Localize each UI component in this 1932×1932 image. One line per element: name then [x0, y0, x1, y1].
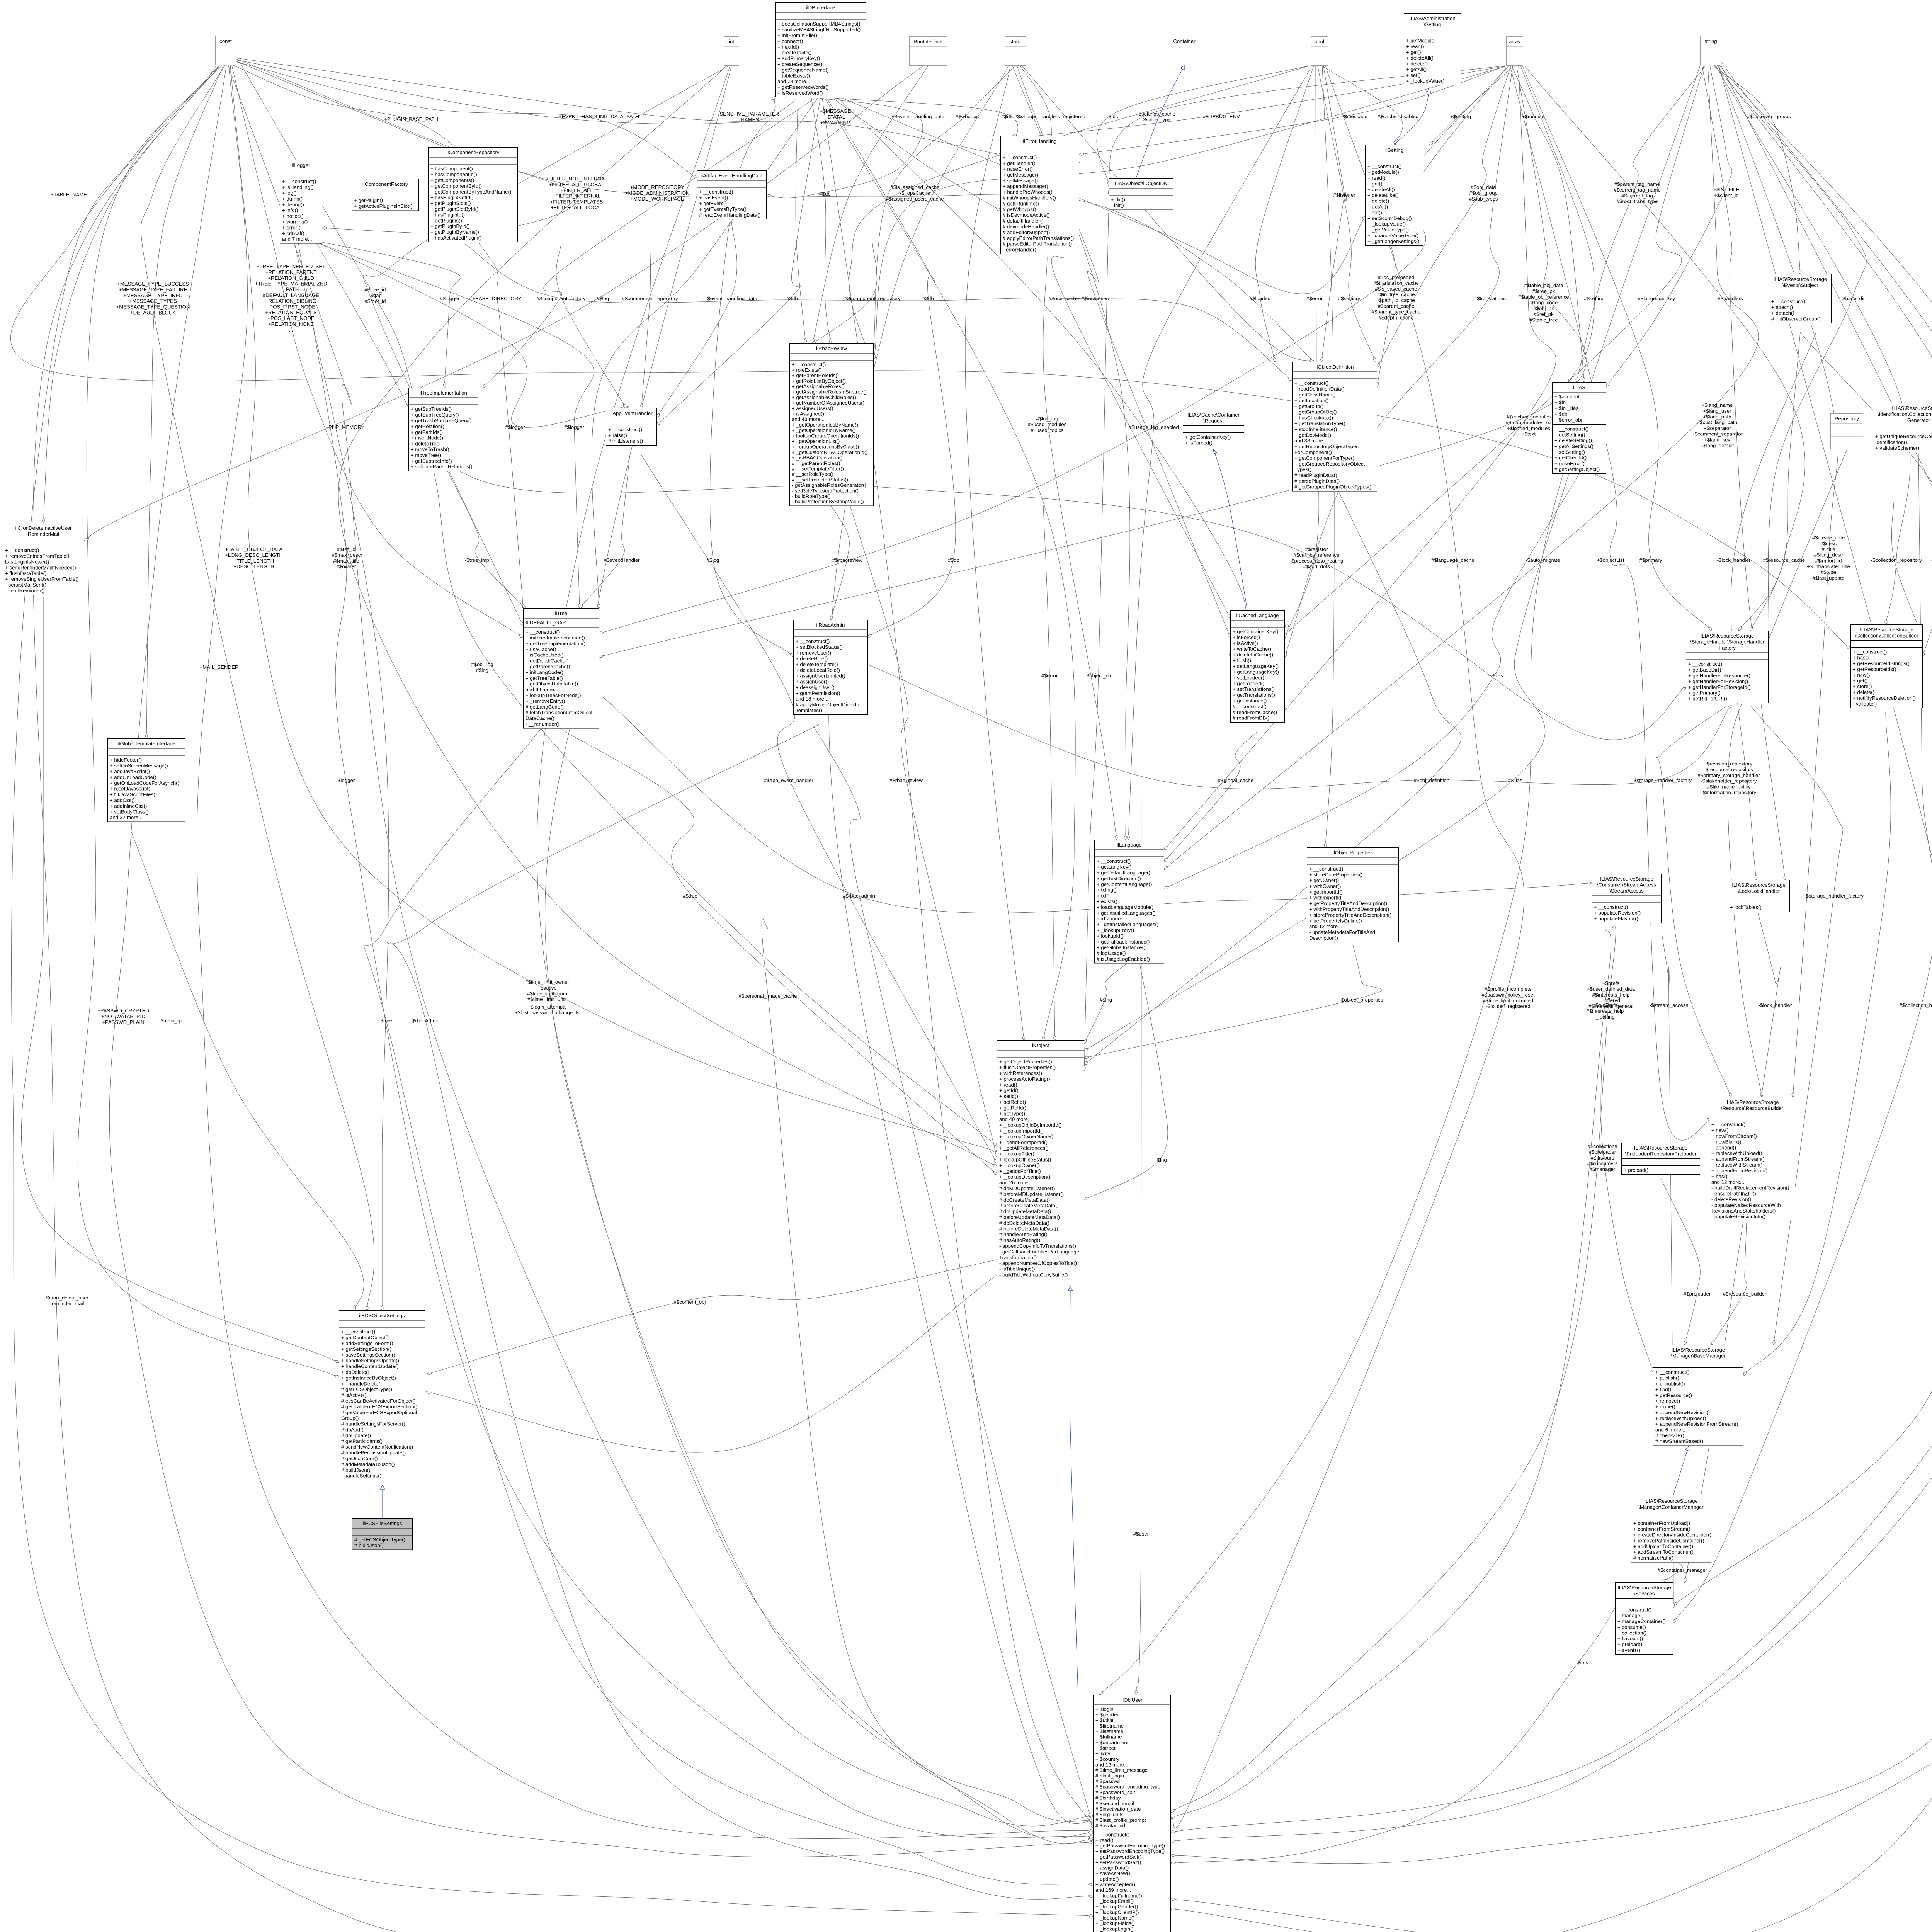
svg-text:+ _lookupTitle(): + _lookupTitle() [999, 1151, 1034, 1157]
svg-text:+ isAssigned(): + isAssigned() [792, 411, 824, 417]
svg-text:+ getHandlerForStorageId(): + getHandlerForStorageId() [1688, 684, 1751, 690]
svg-text:+ info(): + info() [282, 207, 298, 213]
svg-text:+ getLocation(): + getLocation() [1294, 398, 1328, 403]
svg-text:# doMDUpdateListener(): # doMDUpdateListener() [999, 1185, 1055, 1191]
svg-text:+ getComponentById(): + getComponentById() [430, 183, 482, 189]
svg-text:+ getReservedWords(): + getReservedWords() [777, 84, 829, 90]
svg-text:#$cache_disabled: #$cache_disabled [1378, 114, 1418, 119]
svg-text:and 12 more...: and 12 more... [1095, 1762, 1128, 1767]
svg-text:+ getLangKey(): + getLangKey() [1097, 864, 1132, 870]
svg-text:+ _lookupValue(): + _lookupValue() [1367, 221, 1406, 227]
svg-text:# $password_encoding_type: # $password_encoding_type [1095, 1784, 1160, 1790]
svg-text:-SENSTIVE_PARAMETER: -SENSTIVE_PARAMETER [718, 111, 779, 117]
svg-text:+ hideFooter(): + hideFooter() [110, 757, 142, 763]
svg-text:+ getPropertyIsOnline(): + getPropertyIsOnline() [1309, 918, 1362, 923]
svg-text:+ attach(): + attach() [1771, 304, 1793, 310]
svg-text:+ __construct(): + __construct() [699, 189, 733, 195]
svg-text:#$handlers: #$handlers [1718, 296, 1743, 301]
svg-text:ILIAS\ResourceStorage: ILIAS\ResourceStorage [1732, 882, 1786, 888]
svg-text:+ getPasswordSalt(): + getPasswordSalt() [1095, 1854, 1141, 1860]
svg-text:# ecsCanBeActivatedForObject(): # ecsCanBeActivatedForObject() [341, 1398, 416, 1404]
svg-text:+ loadLanguageModule(): + loadLanguageModule() [1097, 904, 1153, 910]
svg-text:# fetchTranslationFromObject: # fetchTranslationFromObject [526, 710, 593, 716]
svg-text:+MESSAGE_TYPE_QUESTION: +MESSAGE_TYPE_QUESTION [116, 304, 190, 310]
svg-text:# readEventHandlingData(): # readEventHandlingData() [699, 212, 761, 218]
svg-text:+ moveTree(): + moveTree() [411, 452, 441, 458]
svg-text:#$db: #$db [786, 296, 798, 301]
svg-text:+ getAll(): + getAll() [1367, 204, 1388, 210]
svg-text:+RELATION_PARENT: +RELATION_PARENT [265, 269, 317, 275]
svg-text:ILIAS\ResourceStorage: ILIAS\ResourceStorage [1860, 627, 1913, 633]
svg-text:#$parent_tag_name: #$parent_tag_name [1614, 181, 1660, 187]
svg-text:#$owner: #$owner [337, 564, 356, 570]
svg-text:+ setLoaded(): + setLoaded() [1233, 675, 1264, 680]
svg-text:+ preload(): + preload() [1624, 1167, 1648, 1173]
svg-text:#$tree_id: #$tree_id [365, 287, 386, 293]
svg-text:+ _lookupFullname(): + _lookupFullname() [1095, 1893, 1142, 1898]
svg-text:-$storage_handler_factory: -$storage_handler_factory [1804, 893, 1864, 899]
svg-text:+ getLanguageKey(): + getLanguageKey() [1233, 669, 1279, 675]
svg-text:+ replaceWithUpload(): + replaceWithUpload() [1711, 1150, 1762, 1156]
svg-text:+ new(): + new() [1853, 672, 1870, 678]
svg-text:+ appendFromRevision(): + appendFromRevision() [1711, 1168, 1768, 1173]
svg-text:+ new(): + new() [1711, 1128, 1728, 1133]
svg-text:#$preloader: #$preloader [1589, 1149, 1616, 1155]
svg-text:# handleAutoRating(): # handleAutoRating() [999, 1231, 1048, 1237]
svg-text:ILIAS\Object\ilObjectDIC: ILIAS\Object\ilObjectDIC [1113, 180, 1169, 186]
svg-text:#$max_title: #$max_title [333, 558, 359, 564]
svg-text:+ initFromIniFile(): + initFromIniFile() [777, 32, 817, 38]
svg-text:+ $lastname: + $lastname [1095, 1728, 1123, 1734]
svg-text:+ _groupOperationsByClass(): + _groupOperationsByClass() [792, 444, 859, 450]
svg-text:# $passwd: # $passwd [1095, 1778, 1120, 1784]
svg-text:+ _lookupEntry(): + _lookupEntry() [1097, 927, 1134, 933]
svg-text:# doUpdate(): # doUpdate() [341, 1432, 371, 1438]
svg-text:+ flushObjectProperties(): + flushObjectProperties() [999, 1065, 1056, 1070]
svg-text:#$rbacreview: #$rbacreview [832, 557, 863, 563]
svg-text:# beforeUpdateMetaData(): # beforeUpdateMetaData() [999, 1214, 1060, 1220]
svg-text:+ _lookupLogin(): + _lookupLogin() [1095, 1926, 1134, 1932]
svg-text:+ lookupTreesForNode(): + lookupTreesForNode() [526, 692, 581, 698]
svg-text:+ _lookupFields(): + _lookupFields() [1095, 1920, 1135, 1926]
svg-text:+ setId(): + setId() [999, 1094, 1018, 1099]
svg-text:-$lng: -$lng [1155, 1157, 1167, 1163]
svg-text:#$table_obj_reference: #$table_obj_reference [1518, 294, 1569, 300]
svg-text:+ getPlugin(): + getPlugin() [354, 197, 383, 203]
svg-text:+ _getIdsForTitle(): + _getIdsForTitle() [999, 1168, 1041, 1174]
svg-text:- getCallbackForTitlesPerLangu: - getCallbackForTitlesPerLanguage [999, 1249, 1079, 1255]
svg-text:+ setRefId(): + setRefId() [999, 1099, 1026, 1105]
svg-text:ilObject: ilObject [1032, 1043, 1049, 1048]
svg-text:+ __construct(): + __construct() [608, 427, 642, 432]
svg-text:+ assignedUsers(): + assignedUsers() [792, 405, 833, 411]
svg-text:+TREE_TYPE_NESTED_SET: +TREE_TYPE_NESTED_SET [257, 264, 325, 269]
svg-text:+ isCacheUsed(): + isCacheUsed() [526, 652, 564, 658]
svg-text:+ getAssignableChildRoles(): + getAssignableChildRoles() [792, 395, 856, 400]
svg-text:- buildDraftReplacementRevisio: - buildDraftReplacementRevision() [1711, 1185, 1789, 1191]
svg-text:+ getRoleListByObject(): + getRoleListByObject() [792, 378, 846, 384]
svg-text:+FILTER_NOT_INTERNAL: +FILTER_NOT_INTERNAL [546, 176, 607, 182]
svg-text:-$cron_delete_user: -$cron_delete_user [44, 1295, 88, 1301]
svg-text:#$passwd_policy_reset: #$passwd_policy_reset [1481, 992, 1534, 998]
svg-text:ILIAS\ResourceStorage: ILIAS\ResourceStorage [1892, 405, 1932, 411]
svg-text:- populateNakedResourceWith: - populateNakedResourceWith [1711, 1202, 1781, 1208]
svg-text:+RELATION_SIBLING: +RELATION_SIBLING [265, 298, 316, 304]
svg-text:+ publish(): + publish() [1655, 1375, 1679, 1381]
svg-text:+ __construct(): + __construct() [1853, 649, 1887, 655]
svg-text:- ensurePathInZIP(): - ensurePathInZIP() [1711, 1191, 1756, 1197]
svg-text:+RELATION_EQUALS: +RELATION_EQUALS [265, 310, 317, 315]
svg-text:-$irss: -$irss [1576, 1660, 1588, 1665]
svg-text:\Collection\CollectionBuilder: \Collection\CollectionBuilder [1855, 633, 1918, 639]
svg-text:+ getUniqueResourceCollection: + getUniqueResourceCollection [1875, 434, 1932, 439]
svg-text:+$lang_path: +$lang_path [1703, 414, 1731, 420]
svg-text:#$whoops: #$whoops [956, 114, 979, 119]
svg-text:\StorageHandler\StorageHandler: \StorageHandler\StorageHandler [1690, 639, 1765, 645]
svg-text:#$db: #$db [922, 296, 934, 301]
svg-text:- sendReminder(): - sendReminder() [5, 588, 45, 594]
svg-text:and 43 more...: and 43 more... [792, 417, 825, 422]
svg-text:#$oldPrefs: #$oldPrefs [1593, 1002, 1617, 1008]
svg-text:+DEFAULT_BLOCK: +DEFAULT_BLOCK [130, 310, 176, 316]
svg-text:#$rbac_admin: #$rbac_admin [843, 893, 875, 899]
svg-text:#$table_tree: #$table_tree [1529, 317, 1558, 323]
svg-text:# getTrafoForECSExportSection(: # getTrafoForECSExportSection() [341, 1404, 417, 1410]
svg-text:#$resource_cache: #$resource_cache [1763, 557, 1805, 563]
svg-text:+FILTER_ALL_LOCAL: +FILTER_ALL_LOCAL [551, 205, 602, 211]
svg-text:+ notice(): + notice() [282, 213, 303, 219]
svg-text:+ getType(): + getType() [999, 1111, 1025, 1116]
svg-text:+ getRelation(): + getRelation() [411, 423, 444, 429]
svg-text:# initObserverGroup(): # initObserverGroup() [1771, 316, 1821, 321]
svg-text:# __setRoleType(): # __setRoleType() [792, 471, 833, 477]
svg-text:+ sanitizeMB4StringIfNotSuppor: + sanitizeMB4StringIfNotSupported() [777, 27, 861, 32]
svg-text:+ getImportId(): + getImportId() [1309, 889, 1343, 895]
svg-text:and 78 more...: and 78 more... [777, 78, 810, 84]
svg-text:# defaultHandler(): # defaultHandler() [1003, 218, 1044, 224]
svg-text:ILIAS\Administration: ILIAS\Administration [1409, 15, 1455, 21]
svg-text:+ appendFromStream(): + appendFromStream() [1711, 1156, 1764, 1162]
svg-text:# devmodeHandler(): # devmodeHandler() [1003, 224, 1049, 230]
svg-text:+ _isRBACOperation(): + _isRBACOperation() [792, 455, 843, 461]
svg-text:+ getTextDirection(): + getTextDirection() [1097, 876, 1141, 881]
svg-text:#$logger: #$logger [505, 424, 525, 430]
svg-text:and 69 more...: and 69 more... [526, 687, 558, 692]
svg-text:# getSettingObject(): # getSettingObject() [1554, 466, 1600, 472]
svg-text:#$used_topics: #$used_topics [1031, 427, 1063, 433]
svg-text:# readFromDB(): # readFromDB() [1233, 715, 1269, 721]
svg-text:Container: Container [1173, 38, 1196, 44]
svg-text:#$app_event_handler: #$app_event_handler [764, 777, 813, 783]
svg-text:-$lock_handler: -$lock_handler [1759, 1002, 1792, 1008]
svg-text:ilECSFileSettings: ilECSFileSettings [363, 1520, 402, 1526]
svg-text:+ deassignUser(): + deassignUser() [796, 684, 835, 690]
svg-text:+ getResourceIds(): + getResourceIds() [1853, 666, 1896, 672]
svg-text:#$listener: #$listener [1333, 192, 1355, 198]
svg-text:ILIAS\ResourceStorage: ILIAS\ResourceStorage [1672, 1347, 1725, 1353]
svg-text:# __getParentRoles(): # __getParentRoles() [792, 460, 840, 466]
svg-text:+$prefs: +$prefs [1602, 980, 1620, 986]
svg-text:+FILTER_TEMPLATES: +FILTER_TEMPLATES [550, 199, 603, 205]
svg-text:#$register: #$register [1305, 546, 1328, 552]
svg-text:-$settings_cache: -$settings_cache [1137, 111, 1175, 117]
svg-text:\StreamAccess: \StreamAccess [1609, 888, 1644, 894]
svg-text:+LONG_DESC_LENGTH: +LONG_DESC_LENGTH [225, 552, 283, 558]
svg-text:+ delete(): + delete() [1853, 689, 1874, 695]
svg-text:+ set(): + set() [1406, 72, 1421, 78]
svg-text:#$in_tree_cache: #$in_tree_cache [1377, 292, 1415, 298]
svg-text:+ getInstanceByObject(): + getInstanceByObject() [341, 1375, 396, 1381]
svg-text:+ warning(): + warning() [282, 219, 308, 225]
svg-text:ilLogger: ilLogger [292, 162, 311, 168]
svg-text:DataCache(): DataCache() [526, 716, 554, 721]
svg-text:+ __construct(): + __construct() [1095, 1832, 1129, 1838]
svg-text:# isActive(): # isActive() [341, 1392, 366, 1398]
svg-text:#$language_key: #$language_key [1638, 296, 1675, 301]
svg-text:Description(): Description() [1309, 935, 1338, 941]
svg-text:+ removeEntriesFromTableIf: + removeEntriesFromTableIf [5, 553, 69, 559]
svg-text:and 40 more...: and 40 more... [999, 1116, 1032, 1122]
svg-text:+ storePropertyTitleAndDescrip: + storePropertyTitleAndDescription() [1309, 912, 1391, 918]
svg-text:-$is_self_registered: -$is_self_registered [1486, 1003, 1530, 1009]
svg-text:#$lng: #$lng [1100, 997, 1112, 1003]
svg-text:# getLangCode(): # getLangCode() [526, 704, 564, 710]
svg-text:+ append(): + append() [1711, 1145, 1736, 1150]
svg-text:+ roleExists(): + roleExists() [792, 367, 821, 373]
svg-text:+ getGlobalInstance(): + getGlobalInstance() [1097, 945, 1145, 951]
svg-text:+MESSAGE_TYPE_FAILURE: +MESSAGE_TYPE_FAILURE [119, 287, 187, 293]
svg-text:- errorHandler(): - errorHandler() [1003, 247, 1038, 253]
svg-text:+ __construct(): + __construct() [792, 362, 826, 367]
svg-text:+ _lookupName(): + _lookupName() [1095, 1915, 1135, 1921]
svg-text:+ containerFromStream(): + containerFromStream() [1633, 1526, 1690, 1532]
svg-text:+ dump(): + dump() [282, 196, 303, 202]
svg-text:+ validateScheme(): + validateScheme() [1875, 445, 1919, 451]
svg-text:+POS_LAST_NODE: +POS_LAST_NODE [267, 315, 315, 321]
svg-text:+ withImportId(): + withImportId() [1309, 895, 1345, 901]
svg-text:+ assignUserLimited(): + assignUserLimited() [796, 673, 845, 679]
svg-text:ilObjUser: ilObjUser [1121, 1697, 1143, 1703]
svg-text:LastLoginIsNewer(): LastLoginIsNewer() [5, 559, 49, 565]
svg-text:+ addPrimaryKey(): + addPrimaryKey() [777, 56, 820, 61]
svg-text:#$desc: #$desc [1820, 541, 1837, 546]
svg-text:+ getHandlerForResource(): + getHandlerForResource() [1688, 673, 1750, 679]
svg-text:#$assigned_users_cache: #$assigned_users_cache [886, 196, 944, 202]
svg-text:+ appendNewRevisionFromStream(: + appendNewRevisionFromStream() [1655, 1421, 1738, 1427]
svg-text:+ log(): + log() [282, 190, 297, 196]
svg-text:_PATH: _PATH [283, 287, 299, 293]
svg-text:-$rbacAdmin: -$rbacAdmin [411, 1018, 440, 1024]
svg-text:#$db: #$db [1001, 114, 1012, 119]
svg-text:array: array [1509, 39, 1520, 44]
svg-text:-$revision_repository: -$revision_repository [1705, 761, 1753, 767]
svg-text:Transformation(): Transformation() [999, 1255, 1037, 1260]
svg-text:+ unpublish(): + unpublish() [1655, 1381, 1685, 1387]
svg-text:+ getGroup(): + getGroup() [1294, 403, 1323, 409]
svg-text:# handlePermissionUpdate(): # handlePermissionUpdate() [341, 1450, 406, 1456]
svg-text:#$language_cache: #$language_cache [1431, 557, 1474, 563]
svg-text:+ saveAsNew(): + saveAsNew() [1095, 1871, 1130, 1876]
svg-text:+ _removeEntry(): + _removeEntry() [526, 698, 565, 704]
svg-text:bool: bool [1315, 39, 1324, 44]
svg-text:#$create_date: #$create_date [1812, 535, 1845, 541]
svg-text:+ $gender: + $gender [1095, 1712, 1119, 1718]
svg-text:# getECSObjectType(): # getECSObjectType() [341, 1386, 392, 1392]
svg-text:# $last_login: # $last_login [1095, 1773, 1124, 1779]
svg-text:+ resetJavascript(): + resetJavascript() [110, 786, 152, 792]
svg-text:#$flavours: #$flavours [1591, 1155, 1614, 1161]
svg-text:Factory: Factory [1719, 645, 1736, 651]
svg-text:#$used_modules: #$used_modules [1028, 422, 1067, 427]
svg-text:#$DEBUG_ENV: #$DEBUG_ENV [1203, 114, 1240, 119]
svg-text:+ __construct(): + __construct() [1554, 426, 1588, 432]
svg-text:+ _lookupImportId(): + _lookupImportId() [999, 1128, 1044, 1134]
svg-text:+ lookupId(): + lookupId() [1097, 933, 1124, 939]
svg-text:ilGlobalTemplateInterface: ilGlobalTemplateInterface [118, 741, 175, 747]
svg-text:#$setting: #$setting [1584, 296, 1605, 301]
svg-text:+$untranslatedTitle: +$untranslatedTitle [1807, 564, 1850, 570]
svg-text:+ isActive(): + isActive() [1233, 640, 1258, 646]
svg-text:+ flushDataTable(): + flushDataTable() [5, 570, 46, 576]
svg-text:- getAssignableRolesGenerator(: - getAssignableRolesGenerator() [792, 482, 866, 488]
svg-text:+ nextId(): + nextId() [777, 44, 799, 50]
svg-text:+ __construct(): + __construct() [1003, 155, 1037, 160]
svg-text:+ getLoaded(): + getLoaded() [1233, 680, 1265, 686]
svg-text:+ getSetting(): + getSetting() [1554, 432, 1585, 438]
svg-text:+ hasCheckbox(): + hasCheckbox() [1294, 415, 1333, 421]
svg-text:+ moveToTrash(): + moveToTrash() [411, 447, 449, 452]
svg-text:\Events\Subject: \Events\Subject [1782, 282, 1818, 288]
svg-text:+NO_AVATAR_RID: +NO_AVATAR_RID [101, 1014, 145, 1019]
svg-text:+ __construct(): + __construct() [1655, 1369, 1689, 1375]
svg-text:#$parent_type_cache: #$parent_type_cache [1372, 309, 1421, 315]
svg-text:static: static [1009, 39, 1021, 44]
svg-text:# sendNewContentNotification(): # sendNewContentNotification() [341, 1444, 413, 1450]
svg-text:# initListeners(): # initListeners() [608, 438, 643, 444]
svg-text:- deleteRevision(): - deleteRevision() [1711, 1196, 1751, 1202]
svg-text:+ setBodyClass(): + setBodyClass() [110, 809, 149, 815]
svg-text:_looking: _looking [1595, 1014, 1614, 1020]
svg-text:+ getRidForURI(): + getRidForURI() [1688, 696, 1727, 702]
svg-text:+ critical(): + critical() [282, 230, 304, 236]
svg-text:-$object_properties: -$object_properties [1340, 997, 1383, 1003]
svg-text:+ getHandler(): + getHandler() [1003, 160, 1036, 166]
svg-text:RunInterface: RunInterface [913, 39, 943, 44]
svg-text:+ _getValueType(): + _getValueType() [1367, 227, 1409, 233]
svg-text:+ set(): + set() [1367, 209, 1382, 215]
svg-text:+ getOwner(): + getOwner() [1309, 878, 1339, 883]
svg-text:+ getModule(): + getModule() [1367, 169, 1399, 175]
svg-text:+$setting: +$setting [1450, 114, 1471, 119]
svg-text:# $avatar_rid: # $avatar_rid [1095, 1823, 1125, 1828]
svg-text:#$max_desc: #$max_desc [332, 552, 361, 558]
svg-text:+ handlePreWhoops(): + handlePreWhoops() [1003, 189, 1053, 195]
svg-text:+$client_id: +$client_id [1714, 192, 1738, 198]
svg-text:+ has(): + has() [1711, 1173, 1727, 1179]
svg-text:+$comment_separator: +$comment_separator [1692, 431, 1743, 437]
svg-text:+ __construct(): + __construct() [1594, 904, 1628, 910]
svg-text:+ txt(): + txt() [1097, 893, 1110, 899]
svg-text:ILIAS\ResourceStorage: ILIAS\ResourceStorage [1774, 276, 1827, 282]
svg-text:ILIAS\ResourceStorage: ILIAS\ResourceStorage [1725, 1099, 1779, 1105]
svg-text:+$loaded_modules: +$loaded_modules [1507, 425, 1550, 431]
svg-text:#$title: #$title [1821, 546, 1835, 552]
svg-text:# $second_email: # $second_email [1095, 1801, 1134, 1806]
svg-text:#$log: #$log [707, 557, 719, 563]
svg-text:+ get(): + get() [1367, 181, 1382, 187]
svg-text:# normalizePath(): # normalizePath() [1633, 1555, 1673, 1561]
svg-text:+ getHandlerForRevision(): + getHandlerForRevision() [1688, 679, 1748, 684]
svg-text:# beforeDeleteMetaData(): # beforeDeleteMetaData() [999, 1226, 1058, 1231]
svg-text:+ getDepthCache(): + getDepthCache() [526, 658, 569, 664]
svg-text:# logUsage(): # logUsage() [1097, 951, 1126, 956]
svg-text:+ doesCollationSupportMB4Strin: + doesCollationSupportMB4Strings() [777, 21, 860, 27]
svg-text:#$obj_definition: #$obj_definition [1414, 777, 1449, 783]
svg-text:Group(): Group() [341, 1415, 359, 1421]
svg-text:+ getInstalledLanguages(): + getInstalledLanguages() [1097, 910, 1156, 916]
svg-text:+ getSequenceName(): + getSequenceName() [777, 67, 829, 73]
svg-text:-$stakeholder_repository: -$stakeholder_repository [1701, 778, 1757, 784]
svg-text:+ getAssignableRoles(): + getAssignableRoles() [792, 384, 845, 389]
svg-text:+ lookupCreateOperationIds(): + lookupCreateOperationIds() [792, 433, 859, 439]
svg-text:+ _lookupOwner(): + _lookupOwner() [999, 1162, 1040, 1168]
svg-text:+ read(): + read() [1095, 1837, 1114, 1843]
svg-text:+$ilias: +$ilias [1488, 673, 1503, 679]
svg-text:\Request: \Request [1203, 418, 1224, 424]
svg-text:- validate(): - validate() [1853, 701, 1877, 707]
svg-text:+$INI_FILE: +$INI_FILE [1713, 187, 1739, 192]
svg-text:# doAdd(): # doAdd() [341, 1427, 364, 1433]
svg-text:+ grantPermission(): + grantPermission() [796, 690, 840, 696]
svg-text:+ readDefinitionData(): + readDefinitionData() [1294, 386, 1344, 392]
svg-text:+ deleteRole(): + deleteRole() [796, 656, 828, 662]
svg-text:+ sendReminderMailIfNeeded(): + sendReminderMailIfNeeded() [5, 565, 76, 570]
svg-text:ilECSObjectSettings: ilECSObjectSettings [359, 1313, 405, 1318]
svg-text:+TREE_TYPE_MATERIALIZED: +TREE_TYPE_MATERIALIZED [255, 281, 327, 287]
svg-text:#$logger: #$logger [564, 424, 584, 430]
svg-text:+ detach(): + detach() [1771, 310, 1794, 316]
svg-text:+ withOwner(): + withOwner() [1309, 883, 1341, 889]
svg-text:+ delete(): + delete() [1367, 198, 1389, 204]
svg-text:+$lang_user: +$lang_user [1703, 408, 1732, 414]
svg-text:# applyEditorPathTranslations(: # applyEditorPathTranslations() [1003, 235, 1074, 241]
svg-text:+ deleteAll(): + deleteAll() [1406, 55, 1434, 61]
svg-text:+ $street: + $street [1095, 1745, 1116, 1751]
svg-text:and 12 more...: and 12 more... [1309, 923, 1342, 929]
svg-text:+ getModule(): + getModule() [1406, 38, 1438, 44]
svg-text:# newStreamBased(): # newStreamBased() [1655, 1439, 1703, 1444]
svg-text:\Manager\BaseManager: \Manager\BaseManager [1671, 1353, 1726, 1359]
svg-text:+ getTranslationType(): + getTranslationType() [1294, 421, 1345, 427]
svg-text:ilRbacAdmin: ilRbacAdmin [816, 622, 845, 628]
svg-text:ilSetting: ilSetting [1385, 147, 1403, 153]
svg-text:+ getAssignableRolesInSubtree(: + getAssignableRolesInSubtree() [792, 389, 867, 395]
svg-text:-$auto_migrate: -$auto_migrate [1526, 557, 1560, 563]
svg-text:+ getPropertyTitleAndDescripti: + getPropertyTitleAndDescription() [1309, 901, 1387, 906]
svg-text:+ lookupOfflineStatus(): + lookupOfflineStatus() [999, 1157, 1051, 1163]
svg-text:#$instances: #$instances [1082, 296, 1109, 301]
svg-text:+ delete(): + delete() [1406, 61, 1428, 66]
svg-text:+ isReservedWord(): + isReservedWord() [777, 90, 823, 96]
svg-text:ILIAS\ResourceStorage: ILIAS\ResourceStorage [1644, 1498, 1698, 1504]
svg-text:+ _lookupClientIP(): + _lookupClientIP() [1095, 1909, 1139, 1915]
svg-text:+ getContainerKey(): + getContainerKey() [1233, 629, 1278, 634]
svg-text:ilObjectDefinition: ilObjectDefinition [1316, 364, 1354, 370]
svg-text:ILIAS\ResourceStorage: ILIAS\ResourceStorage [1600, 876, 1653, 882]
svg-text:+ getNumberOfAssignedUsers(): + getNumberOfAssignedUsers() [792, 400, 864, 406]
svg-text:+ appendNewRevision(): + appendNewRevision() [1655, 1410, 1710, 1415]
svg-text:and 6 more...: and 6 more... [1655, 1427, 1685, 1433]
